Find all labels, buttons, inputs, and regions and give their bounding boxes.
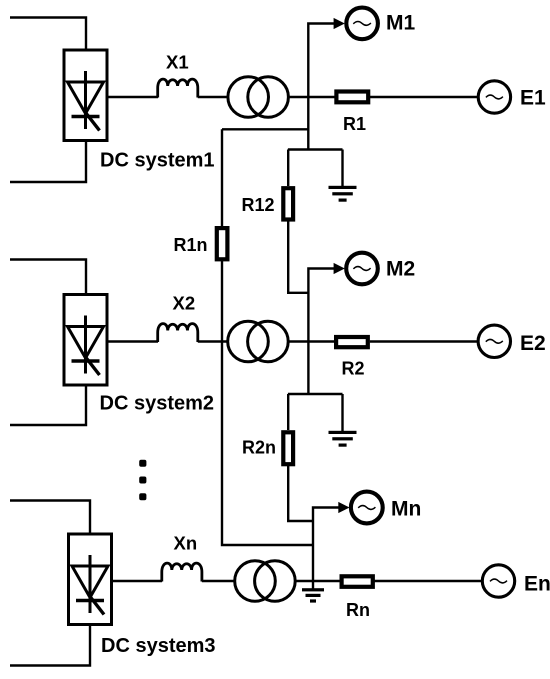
svg-text:DC system2: DC system2 [100, 393, 215, 415]
tilde E1 [486, 95, 503, 99]
wire R1n vertical line [221, 129, 223, 227]
wire T junction row2 [288, 393, 343, 395]
wire Rn to En [374, 580, 481, 582]
svg-text:Mn: Mn [391, 498, 421, 521]
resistor R2n [283, 432, 293, 464]
tilde En [490, 579, 507, 583]
machine Mn [351, 492, 383, 524]
svg-text:R12: R12 [242, 195, 275, 215]
inductor X1 [158, 79, 198, 97]
wire DC system1 top lead [10, 18, 86, 51]
converter U2 (DC system2) [64, 295, 107, 386]
ground n [302, 588, 324, 602]
wire DC system3 top lead [10, 501, 90, 535]
wire R1n line lower segment [222, 259, 313, 545]
wire DC system2 bottom lead [10, 385, 86, 425]
tilde M1 [353, 21, 371, 25]
resistor R2 [336, 337, 368, 347]
svg-text:R1: R1 [343, 114, 366, 134]
inductor X2 [158, 324, 198, 342]
wire T1 to R1 (through bus 1) [288, 96, 336, 98]
wire converter1 to X1 [107, 96, 158, 98]
machine M1 [346, 8, 378, 40]
wire bus1 lower tap to node line [222, 128, 308, 130]
wire T junction row1 [288, 148, 343, 150]
svg-text:Xn: Xn [174, 533, 198, 554]
source E1 [478, 81, 510, 113]
resistor R1n [217, 228, 228, 259]
tilde M2 [353, 267, 370, 271]
wire to ground 2 [341, 394, 343, 432]
svg-text:DC system1: DC system1 [100, 150, 215, 172]
svg-text:R2: R2 [342, 359, 365, 379]
arrowhead to M2 [334, 263, 345, 274]
ellipsis dots [139, 460, 146, 500]
tilde E2 [486, 339, 503, 343]
wire DC system3 bottom lead [10, 625, 90, 666]
wire T2 to R2 (through bus 2) [288, 340, 335, 342]
source En [482, 565, 514, 597]
wire converter2 to X2 [107, 340, 158, 342]
bus 1 vertical [308, 24, 335, 150]
wire T3 to Rn (through bus n) [295, 580, 340, 582]
wire bus n to ground n [312, 581, 314, 589]
svg-text:R2n: R2n [242, 438, 276, 458]
arrowhead to Mn [338, 502, 349, 513]
svg-text:X2: X2 [173, 293, 196, 314]
ground 1 [329, 186, 357, 202]
wire X2 to transformer T2 [198, 340, 229, 342]
wire R2n to bus n [288, 466, 313, 521]
converter U3 (DC system3) [69, 534, 112, 625]
svg-text:M1: M1 [386, 12, 415, 35]
wire X1 to transformer T1 [198, 96, 229, 98]
svg-text:E1: E1 [520, 87, 546, 110]
wire R2 to E2 [370, 340, 478, 342]
inductor Xn [162, 563, 202, 581]
wire Xn to transformer T3 [202, 580, 235, 582]
wire to R2n [287, 394, 289, 430]
ground 2 [329, 431, 357, 447]
svg-text:X1: X1 [166, 52, 189, 73]
transformer T2 [228, 321, 288, 362]
machine M2 [346, 253, 378, 285]
svg-text:R1n: R1n [174, 235, 208, 255]
transformer T1 [228, 77, 289, 118]
bus n vertical [313, 508, 340, 582]
bus 2 vertical [308, 269, 335, 395]
svg-text:M2: M2 [386, 258, 415, 281]
svg-text:En: En [524, 573, 550, 596]
resistor Rn [342, 576, 373, 587]
wire DC system1 bottom lead [10, 141, 86, 183]
wire DC system2 top lead [10, 260, 86, 295]
wire R1 to E1 [370, 96, 478, 98]
source E2 [478, 325, 510, 357]
wire to ground 1 [341, 150, 343, 187]
svg-text:DC system3: DC system3 [101, 635, 216, 657]
tilde Mn [358, 506, 375, 510]
converter U1 (DC system1) [64, 50, 107, 141]
svg-text:E2: E2 [520, 332, 546, 355]
resistor R1 [336, 92, 368, 103]
wire converter3 to Xn [112, 580, 163, 582]
wire to R12 [287, 150, 289, 187]
transformer T3 [235, 561, 295, 602]
resistor R12 [283, 188, 293, 219]
wire R12 to bus2 [288, 222, 308, 293]
svg-text:Rn: Rn [346, 600, 370, 620]
arrowhead to M1 [334, 18, 345, 29]
